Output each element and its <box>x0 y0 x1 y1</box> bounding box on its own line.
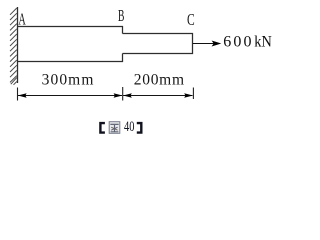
force arrow line at C <box>193 43 214 45</box>
svg-text:40: 40 <box>124 119 134 135</box>
wall hatching <box>10 8 17 85</box>
dimension line 300mm <box>18 95 122 97</box>
dim arrowhead left at wall <box>18 93 27 97</box>
force arrowhead <box>212 41 222 47</box>
svg-text:200mm: 200mm <box>134 72 184 89</box>
svg-text:B: B <box>118 6 124 25</box>
svg-text:A: A <box>18 9 26 28</box>
caption glyph box (tu character placeholder) <box>109 122 120 134</box>
thick bar segment AB outline <box>17 27 123 62</box>
left extension line at A <box>17 88 19 101</box>
fixed wall vertical line <box>17 7 19 83</box>
extension line at B <box>122 87 124 101</box>
dim arrowhead right at B <box>114 93 123 97</box>
svg-text:kN: kN <box>254 34 272 51</box>
svg-text:C: C <box>187 10 195 29</box>
svg-text:600: 600 <box>223 34 251 51</box>
caption right bracket <box>137 122 143 134</box>
caption left bracket <box>99 122 105 134</box>
thin bar segment BC outline <box>123 34 193 54</box>
dimension line 200mm <box>123 95 192 97</box>
extension line at C <box>192 88 194 100</box>
dim arrowhead left at B <box>123 93 132 97</box>
dim arrowhead right at C <box>184 93 193 97</box>
